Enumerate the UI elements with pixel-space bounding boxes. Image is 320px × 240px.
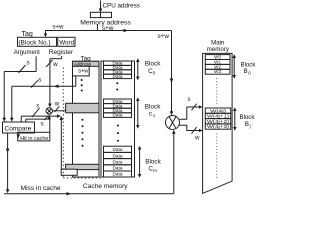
register: Word [58, 37, 75, 46]
register: memory address [90, 12, 111, 17]
block: data column container [101, 61, 135, 177]
svg-text:Word: Word [59, 40, 74, 47]
wire: selector junction down to hit box [49, 119, 51, 132]
svg-text:m: m [153, 168, 157, 173]
svg-text:Hit in cache: Hit in cache [20, 136, 48, 142]
svg-text:0: 0 [153, 70, 156, 75]
cells: words W(4j).. [205, 108, 230, 129]
svg-text:w: w [54, 102, 60, 108]
wire: cache tag entry to compare [10, 76, 76, 122]
cells: words W0-W3 [205, 55, 230, 75]
brace: block Bj extent arrow [233, 107, 237, 130]
svg-text:s+w: s+w [53, 23, 65, 30]
wire: bus down to selector circle [170, 31, 174, 116]
brace: block c1 extent arrow [136, 97, 140, 128]
svg-text:memory: memory [207, 46, 230, 53]
cell: selected line tag (gray band) [66, 103, 99, 113]
svg-text:Data: Data [113, 166, 123, 171]
wire: miss in cache path [4, 130, 176, 196]
register: (Block No.) [18, 37, 57, 46]
svg-text:Compare: Compare [5, 126, 32, 133]
svg-text:w: w [52, 61, 58, 68]
svg-text:s: s [41, 121, 44, 128]
cell: matched tag (gray band 2) [66, 164, 99, 169]
svg-text:(Block No.): (Block No.) [18, 40, 50, 47]
wire: tag argument to compare [2, 56, 36, 122]
op: word selector circle (x) [46, 108, 52, 114]
svg-text:W(4j+3): W(4j+3) [207, 124, 230, 129]
wire: selector to memory (word w) [180, 125, 203, 134]
cell: matched word box [61, 169, 77, 175]
svg-text:s: s [36, 102, 39, 109]
dots: address column lower [82, 119, 84, 147]
wire: main horizontal bus s+w [44, 29, 172, 37]
wire: selector to selected cache line [52, 106, 65, 112]
block: Hit in cache [18, 132, 50, 141]
cells: data rows block C0 [104, 61, 132, 79]
dots: address column upper [81, 79, 83, 92]
svg-text:s: s [38, 77, 41, 84]
svg-text:W3: W3 [214, 69, 221, 74]
svg-text:B: B [245, 121, 249, 128]
svg-text:Data: Data [113, 113, 123, 118]
svg-text:c: c [149, 111, 152, 118]
dots: data column gap 2 [117, 125, 119, 142]
svg-text:Miss in cache: Miss in cache [21, 185, 61, 192]
svg-text:B: B [244, 68, 248, 75]
wire: selector output to compare (lower) [26, 114, 51, 122]
svg-text:1: 1 [153, 113, 156, 118]
header: Address (gray) [73, 61, 100, 66]
svg-text:Block: Block [145, 104, 161, 111]
svg-text:Data: Data [113, 153, 123, 158]
wire: selector to memory (tag s) [180, 104, 203, 120]
brace: block C0 extent arrow [136, 58, 140, 80]
svg-text:Argument: Argument [14, 50, 40, 56]
brace: block B0 extent arrow [232, 54, 236, 78]
wire: matched tag to compare (upper) [21, 108, 61, 122]
svg-text:Register: Register [49, 49, 74, 56]
svg-text:W(4j): W(4j) [210, 108, 227, 113]
cells: data rows block c1 [104, 99, 132, 117]
cells: data rows block Cm [104, 146, 132, 177]
svg-text:s: s [27, 60, 30, 67]
svg-text:Cache memory: Cache memory [83, 183, 128, 190]
wire: memory address to main bus [97, 24, 99, 31]
dots: data column gap 1 [116, 82, 118, 90]
wire: word field to word selector [46, 56, 62, 108]
brace: block Cm extent arrow [138, 146, 142, 178]
wire: CPU address input arrow [99, 1, 103, 13]
boundary: cache dotted outline [63, 68, 103, 179]
svg-text:0: 0 [248, 71, 251, 76]
svg-text:w: w [194, 135, 200, 141]
svg-text:s: s [188, 97, 191, 103]
svg-text:W(4j+1): W(4j+1) [207, 114, 230, 119]
svg-text:Data: Data [113, 172, 123, 177]
svg-text:W(4j+2): W(4j+2) [207, 119, 230, 124]
block: address column [73, 61, 100, 177]
svg-text:Data: Data [113, 147, 123, 152]
svg-text:j: j [249, 123, 251, 128]
block: main memory outline (slanted bottom) [203, 53, 233, 193]
cell: s+w tag entry [73, 66, 90, 76]
svg-text:s+w: s+w [78, 69, 89, 75]
dots: memory gap 2 [216, 134, 218, 180]
wire: data out riser from matched word box [60, 116, 64, 169]
svg-text:Data: Data [113, 160, 123, 165]
block: Compare [3, 122, 35, 133]
op: main memory address selector circle (X) [166, 116, 180, 130]
svg-text:Block: Block [145, 61, 161, 68]
dots: memory gap 1 [216, 78, 218, 106]
svg-text:s+w: s+w [158, 33, 170, 40]
svg-text:CPU address: CPU address [103, 3, 140, 10]
svg-text:Data: Data [113, 74, 123, 79]
